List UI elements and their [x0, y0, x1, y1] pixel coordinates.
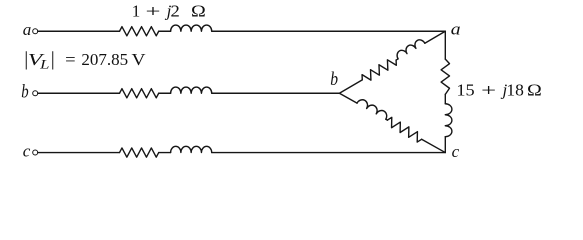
wire delta b-c mid [386, 118, 388, 121]
wire line-a to delta node a [212, 30, 446, 32]
terminal c [33, 150, 38, 155]
wire line-a mid [159, 30, 171, 32]
inductor delta b-c [357, 98, 389, 120]
svg-text:|VL|=207.85V: |VL|=207.85V [24, 48, 146, 72]
wire delta b-a lead [339, 80, 362, 93]
svg-text:b: b [21, 83, 28, 103]
wire line-c to delta node c [212, 152, 446, 154]
resistor line-b [120, 89, 159, 98]
wire delta a-c mid [444, 94, 446, 103]
inductor delta a-c [445, 104, 452, 137]
wire delta b-c to node c [422, 139, 446, 152]
wire delta a-c lead [444, 31, 446, 59]
wire a lead [38, 30, 120, 32]
wire line-b to delta node b [212, 92, 340, 94]
resistor delta b-a [360, 56, 398, 84]
wire delta b-a mid [396, 59, 398, 60]
wire line-b mid [159, 92, 171, 94]
delta branch a-c (right vertical) [441, 31, 452, 152]
wire delta b-c lead [339, 93, 357, 103]
inductor line-a [171, 25, 212, 31]
svg-text:b: b [330, 69, 338, 90]
svg-text:c: c [23, 142, 31, 161]
resistor delta a-c [441, 59, 449, 94]
delta branch b-a [336, 26, 447, 97]
svg-text:15+j18Ω: 15+j18Ω [456, 80, 541, 99]
inductor line-c [171, 146, 212, 152]
delta branch b-c [337, 88, 448, 157]
wire line-c mid [159, 152, 171, 154]
svg-text:1+j2Ω: 1+j2Ω [132, 1, 206, 20]
wire delta a-c to node c [444, 137, 446, 153]
wire delta b-a to node a [425, 31, 445, 43]
resistor delta b-c [385, 116, 424, 143]
svg-text:c: c [452, 142, 460, 161]
wire b lead [38, 92, 120, 94]
inductor line-b [171, 87, 212, 93]
inductor delta b-a [395, 38, 425, 59]
svg-text:a: a [23, 20, 32, 39]
wire c lead [38, 152, 120, 154]
svg-text:a: a [451, 19, 461, 38]
terminal a [33, 29, 38, 34]
terminal b [33, 91, 38, 96]
resistor line-c [120, 148, 159, 157]
resistor line-a [120, 27, 159, 36]
